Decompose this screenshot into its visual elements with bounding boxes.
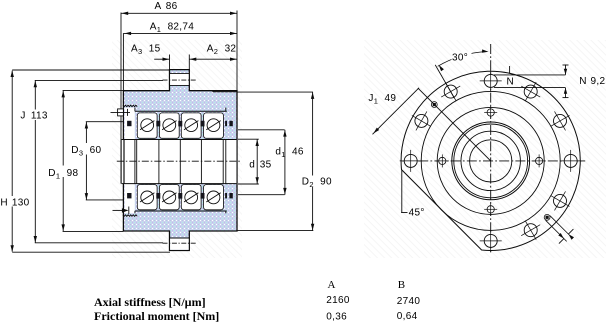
svg-text:H130: H130 (0, 198, 29, 209)
svg-text:B: B (398, 279, 405, 291)
svg-text:45°: 45° (409, 207, 425, 218)
svg-text:A86: A86 (155, 1, 178, 12)
svg-text:Axial stiffness [N/µm]: Axial stiffness [N/µm] (94, 295, 206, 309)
svg-text:d35: d35 (249, 159, 271, 170)
svg-text:2160: 2160 (326, 295, 350, 306)
svg-text:30°: 30° (452, 52, 468, 63)
svg-text:0,36: 0,36 (326, 312, 347, 322)
svg-text:Frictional moment [Nm]: Frictional moment [Nm] (94, 309, 219, 322)
svg-text:A: A (328, 279, 336, 291)
svg-text:N9,2: N9,2 (579, 76, 605, 87)
svg-text:A182,74: A182,74 (150, 21, 194, 34)
svg-text:0,64: 0,64 (397, 311, 418, 322)
svg-text:2740: 2740 (397, 296, 421, 307)
svg-text:J113: J113 (20, 111, 47, 122)
svg-text:N: N (507, 76, 515, 87)
